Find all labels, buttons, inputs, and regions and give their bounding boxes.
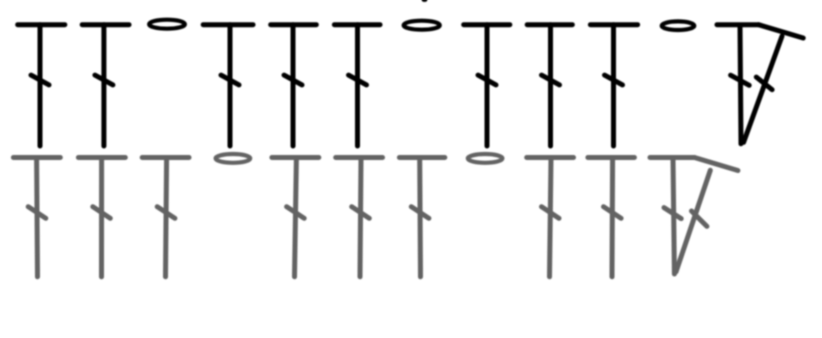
dc2tog decrease cluster R2-9 xyxy=(717,25,803,144)
double crochet R2-1 xyxy=(18,25,65,146)
double crochet R2-4 xyxy=(271,25,317,146)
double crochet R1-7 xyxy=(527,158,574,277)
double crochet R2-2 xyxy=(82,25,129,146)
crochet chart row 2 (black, worked row) xyxy=(18,0,804,146)
chain stitch R2-b xyxy=(404,21,440,30)
dc2tog decrease cluster R1-9 xyxy=(650,158,738,275)
double crochet R1-3 xyxy=(142,158,189,277)
double crochet R2-3 xyxy=(203,25,253,146)
double crochet R1-6 xyxy=(399,158,444,277)
chain stitch R2-a xyxy=(149,20,185,29)
double crochet R1-4 xyxy=(272,158,319,277)
chain stitch R2-c xyxy=(662,21,695,30)
cut-off stem tip of row above xyxy=(422,0,428,2)
double crochet R2-5 xyxy=(334,25,380,146)
double crochet R2-6 xyxy=(464,25,510,146)
chain stitch R1-a xyxy=(216,154,251,163)
chain stitch R1-b xyxy=(468,154,503,163)
double crochet R2-8 xyxy=(590,25,637,146)
double crochet R1-2 xyxy=(78,158,125,277)
double crochet R1-8 xyxy=(588,158,635,277)
double crochet R1-1 xyxy=(13,158,60,277)
crochet chart row 1 (gray, previous row) xyxy=(13,154,738,277)
double crochet R2-7 xyxy=(527,25,572,146)
double crochet R1-5 xyxy=(336,158,383,277)
